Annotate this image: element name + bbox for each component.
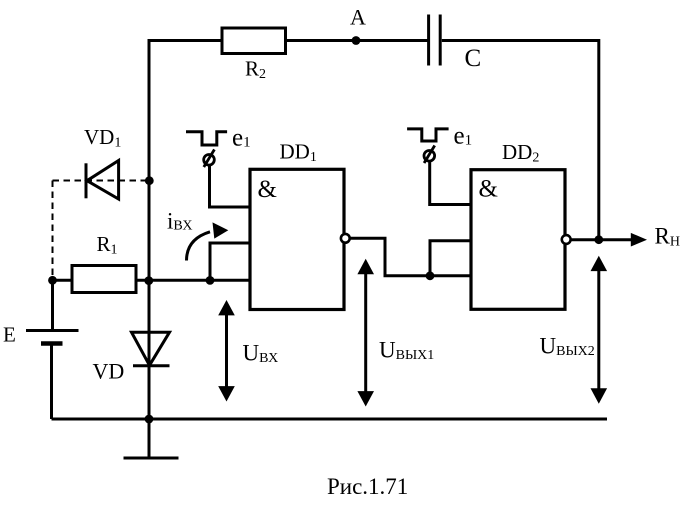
wire e1 to DD1 upper input	[210, 166, 251, 208]
arrow UVYH1 (double)	[357, 259, 374, 407]
svg-text:C: C	[465, 45, 482, 72]
arrow UVX (double)	[218, 300, 235, 402]
wire battery bottom lead	[50, 344, 53, 420]
inverter bubble DD1 output	[341, 234, 350, 243]
battery E short plate	[41, 341, 63, 346]
svg-text:Рис.1.71: Рис.1.71	[327, 474, 408, 499]
wire capacitor to right corner and down	[442, 41, 599, 240]
wire battery top lead	[51, 280, 54, 330]
wire dashed horizontal VD1	[53, 180, 150, 182]
arrowhead RH output	[631, 233, 647, 247]
node DD2 input junction	[426, 271, 435, 280]
svg-text:A: A	[350, 5, 366, 30]
node R1 left (battery)	[48, 276, 57, 285]
resistor R1	[72, 266, 136, 293]
svg-text:&: &	[479, 176, 498, 203]
wire DD2 middle input branch	[430, 241, 471, 276]
capacitor C	[429, 15, 441, 66]
wire DD1 middle input	[210, 243, 250, 280]
wire left vertical rail	[148, 39, 151, 419]
wire R2 to capacitor	[286, 39, 429, 42]
ground	[124, 419, 179, 458]
node bottom rail ground junction	[145, 415, 154, 424]
pulse symbol e1 (DD1)	[186, 132, 227, 145]
wire bottom rail	[52, 418, 608, 421]
svg-text:VD: VD	[93, 359, 125, 384]
node A	[352, 36, 361, 45]
wire DD2 output to node	[571, 238, 599, 241]
current arrow iBX	[187, 222, 229, 260]
wire node to R1	[53, 279, 73, 282]
node VD1-rail junction	[145, 176, 154, 185]
arrow UVYH2 (double)	[591, 256, 608, 404]
resistor R2	[222, 28, 286, 54]
node output junction	[594, 235, 603, 244]
diode VD1	[86, 161, 119, 200]
wire dashed vertical left	[52, 181, 54, 278]
logic gate DD1 (AND) box	[250, 169, 344, 309]
pulse source symbol e1 (DD1)	[204, 150, 215, 168]
wire e1 to DD2 upper input	[430, 162, 471, 205]
battery E long plate	[26, 329, 79, 332]
pulse source symbol e1 (DD2)	[424, 146, 435, 164]
svg-text:E: E	[3, 323, 16, 347]
node DD1 input junction	[206, 276, 215, 285]
wire output arrow shaft RH	[599, 238, 632, 241]
pulse symbol e1 (DD2)	[407, 129, 449, 141]
wire DD1 output to DD2 inputs	[350, 238, 471, 275]
wire R1 to DD1 input	[136, 279, 250, 282]
logic gate DD2 (AND) box	[471, 170, 565, 310]
inverter bubble DD2 output	[562, 235, 571, 244]
svg-text:&: &	[258, 176, 277, 203]
diode VD	[132, 332, 170, 366]
wire top-left horizontal	[149, 39, 222, 42]
node R1 right (rail)	[144, 276, 153, 285]
